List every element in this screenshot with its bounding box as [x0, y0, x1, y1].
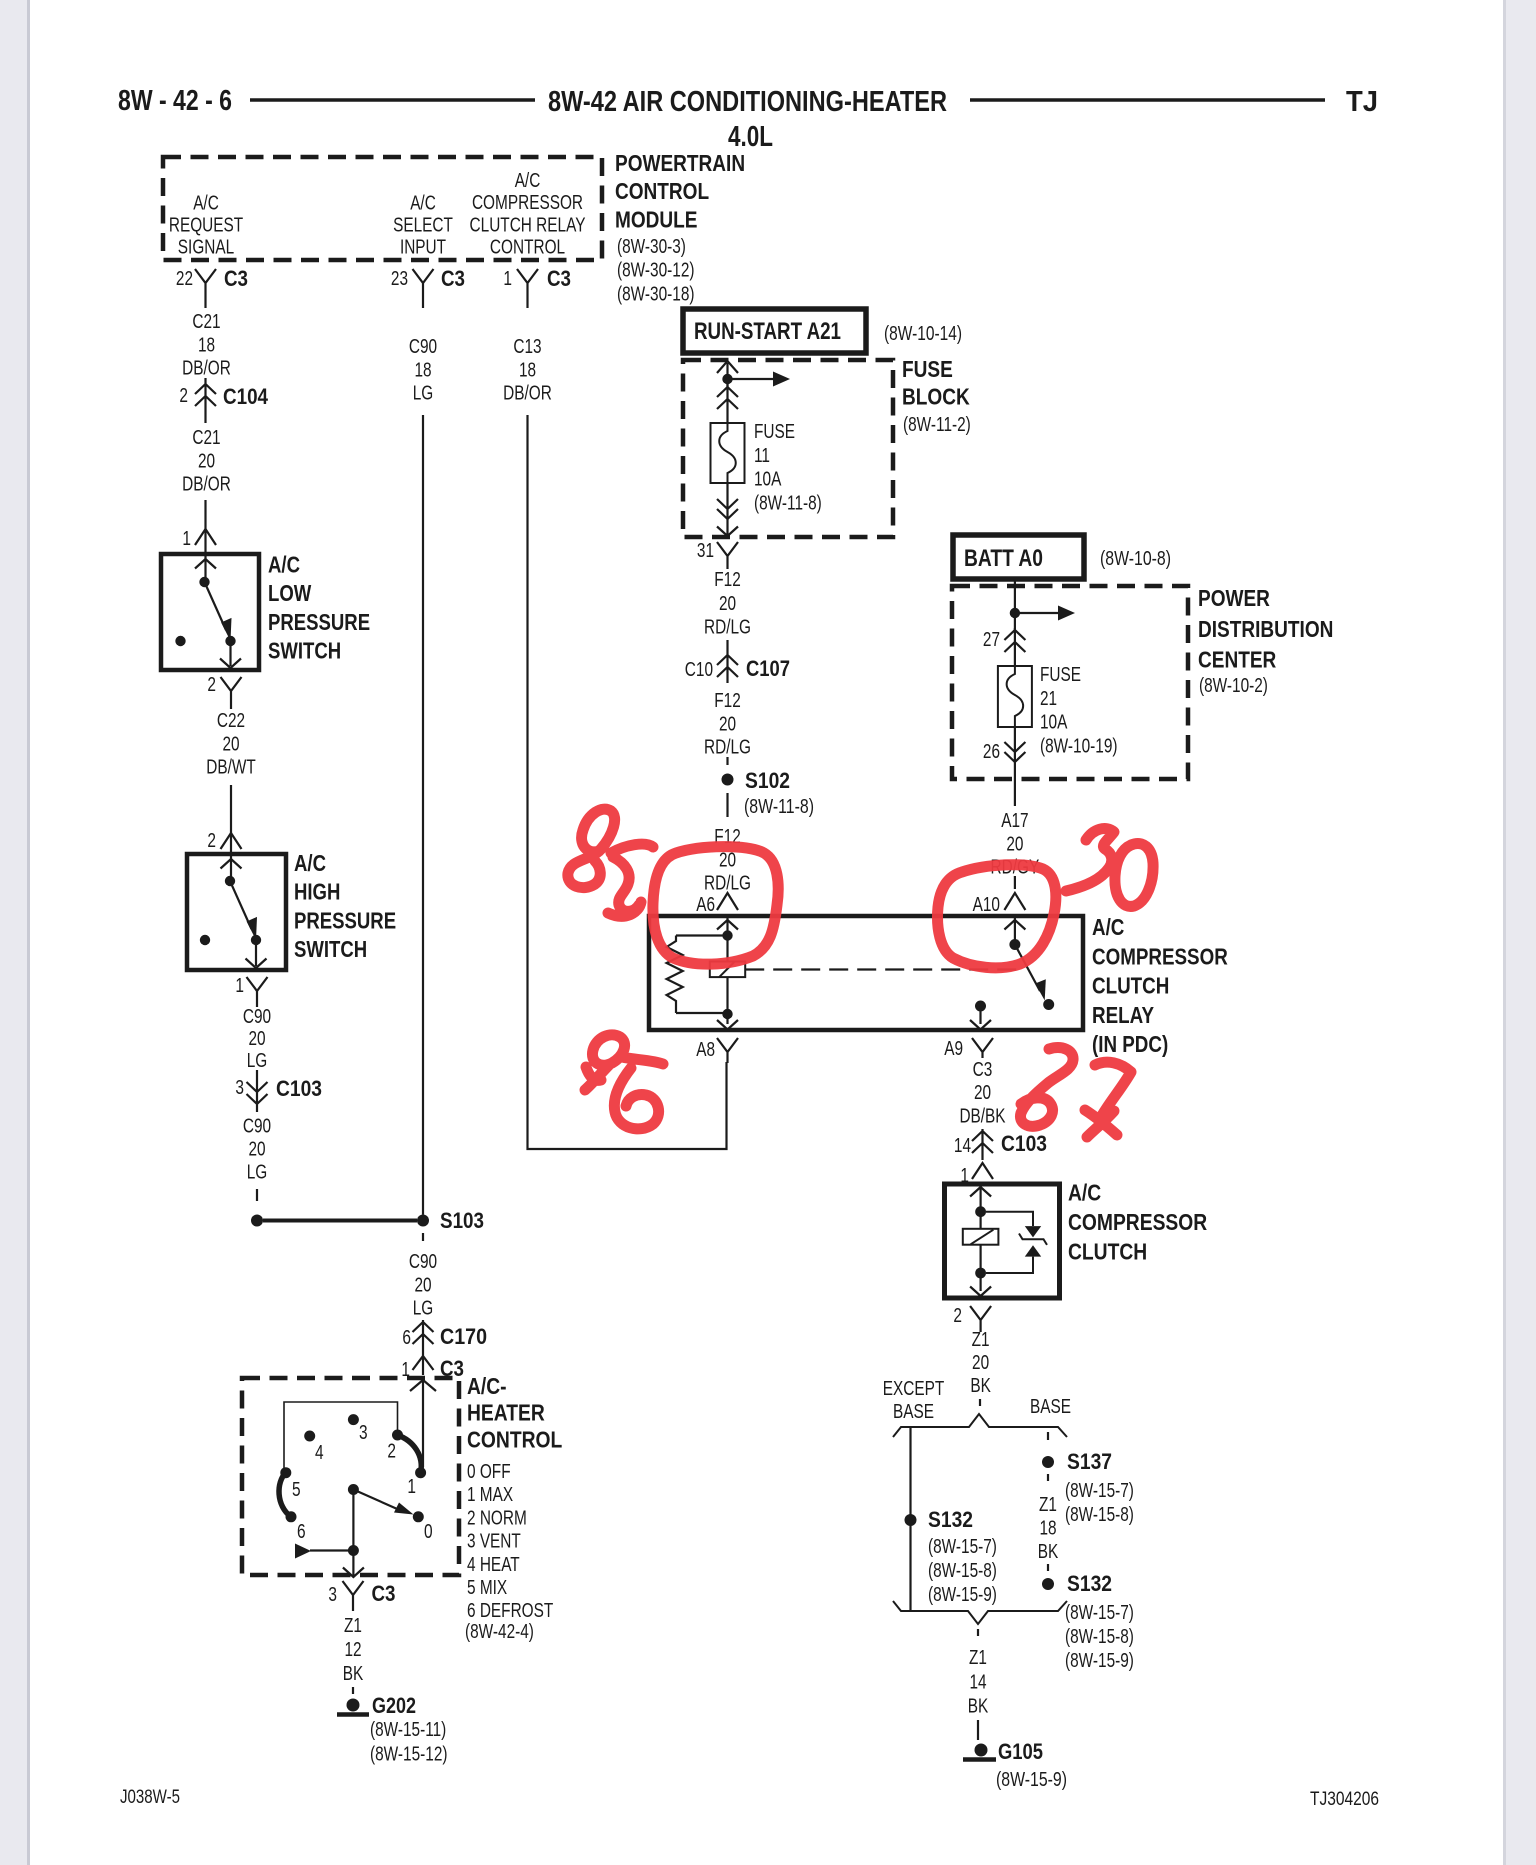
svg-text:FUSE: FUSE — [1040, 663, 1081, 686]
pin number 6 (C170) — [402, 1326, 411, 1349]
connector name C103 (14) — [1001, 1131, 1047, 1156]
svg-text:20: 20 — [719, 592, 736, 615]
wire label C21 20 DB/OR — [182, 426, 231, 496]
ground G105 — [963, 1744, 996, 1760]
svg-text:COMPRESSOR: COMPRESSOR — [472, 191, 583, 214]
label A/C HIGH PRESSURE SWITCH — [294, 850, 396, 962]
svg-text:(8W-15-8): (8W-15-8) — [928, 1559, 997, 1582]
svg-text:A/C: A/C — [515, 169, 541, 192]
label A/C-HEATER CONTROL — [467, 1373, 562, 1452]
ground name G202 — [372, 1693, 416, 1718]
svg-text:COMPRESSOR: COMPRESSOR — [1068, 1209, 1207, 1235]
svg-text:A6: A6 — [696, 893, 715, 916]
connector name C3 (pin 23) — [441, 266, 465, 291]
label POWER DISTRIBUTION CENTER — [1198, 585, 1333, 697]
svg-text:C90: C90 — [409, 1250, 437, 1273]
svg-text:DISTRIBUTION: DISTRIBUTION — [1198, 616, 1333, 642]
pin number 26 — [983, 740, 1000, 763]
pin label A9 — [944, 1037, 963, 1060]
connector pin 23 C3 (Y) — [413, 269, 434, 308]
S132 left sheet references — [928, 1535, 997, 1606]
red circle around relay pin 30/A10 — [938, 865, 1056, 968]
connector name C104 — [223, 384, 269, 409]
svg-text:CLUTCH: CLUTCH — [1068, 1238, 1147, 1264]
svg-text:20: 20 — [222, 732, 239, 755]
svg-text:11: 11 — [754, 444, 770, 467]
left branch wire (except base) — [909, 1427, 911, 1611]
svg-text:CONTROL: CONTROL — [467, 1426, 562, 1452]
wire label C3 20 DB/BK — [959, 1058, 1005, 1127]
svg-text:DB/WT: DB/WT — [206, 756, 256, 779]
rotary wiper feed wire and dot — [348, 1490, 359, 1557]
svg-text:A/C: A/C — [1068, 1180, 1101, 1206]
rotary label 3 — [359, 1421, 368, 1444]
splice S103 dot — [417, 1215, 429, 1227]
svg-text:1: 1 — [235, 974, 244, 997]
wire F12 segment — [726, 640, 728, 653]
in-line connector C103 (14) — [972, 1129, 993, 1160]
clutch coil and suppression diode internals — [963, 1186, 1047, 1296]
pin number 31 — [697, 539, 714, 562]
svg-text:DB/OR: DB/OR — [503, 382, 552, 405]
relay switch branch (A10 to A9) — [970, 918, 1054, 1030]
svg-text:6: 6 — [297, 1520, 306, 1543]
power distribution center box — [952, 586, 1188, 779]
svg-text:C22: C22 — [217, 709, 245, 732]
label BATT A0 — [964, 545, 1043, 572]
pin number 2 (below LP switch) — [207, 673, 216, 696]
rotary label 6 — [297, 1520, 306, 1543]
connector pin 22 C3 (Y) — [195, 269, 216, 308]
rotary contact 6 — [286, 1511, 297, 1522]
svg-text:RD/LG: RD/LG — [704, 616, 751, 639]
svg-text:G105: G105 — [998, 1739, 1043, 1764]
PCM name POWERTRAIN CONTROL MODULE — [615, 150, 745, 233]
G105 sheet reference — [996, 1768, 1067, 1791]
svg-text:(8W-15-11): (8W-15-11) — [370, 1718, 446, 1741]
rotary contact 4 — [304, 1431, 315, 1442]
svg-text:C170: C170 — [440, 1324, 487, 1349]
svg-text:F12: F12 — [714, 568, 741, 591]
svg-text:(8W-15-7): (8W-15-7) — [1065, 1479, 1134, 1502]
pin label A8 — [696, 1038, 715, 1061]
svg-text:A/C: A/C — [1092, 914, 1124, 940]
connector pin A9 (Y) — [972, 1038, 993, 1058]
rotary label 2 — [387, 1440, 396, 1463]
svg-text:20: 20 — [414, 1273, 431, 1296]
svg-text:27: 27 — [983, 628, 1000, 651]
svg-text:A/C: A/C — [193, 192, 219, 215]
connector name C103 — [276, 1076, 322, 1101]
splice S137 — [1042, 1456, 1054, 1468]
svg-text:SIGNAL: SIGNAL — [178, 236, 234, 259]
svg-text:18: 18 — [1039, 1517, 1056, 1540]
wire label Z1 14 BK — [968, 1646, 989, 1718]
splice name S132 (left) — [928, 1507, 973, 1532]
pin A10 chevron — [1004, 876, 1025, 910]
svg-text:TJ304206: TJ304206 — [1310, 1788, 1379, 1810]
svg-text:18: 18 — [519, 358, 536, 381]
svg-text:10A: 10A — [754, 468, 782, 491]
header page number 8W - 42 - 6 — [118, 85, 232, 117]
svg-text:C21: C21 — [192, 310, 220, 333]
reference (8W-11-8) at S102 — [744, 795, 814, 818]
svg-text:S137: S137 — [1067, 1449, 1112, 1474]
svg-text:POWER: POWER — [1198, 585, 1270, 611]
svg-text:Z1: Z1 — [344, 1614, 362, 1637]
svg-text:3: 3 — [359, 1421, 368, 1444]
svg-text:LG: LG — [413, 1297, 434, 1320]
ground name G105 — [998, 1739, 1043, 1764]
handwritten annotation 86 — [585, 1035, 663, 1129]
svg-text:RD/LG: RD/LG — [704, 736, 751, 759]
svg-text:RUN-START A21: RUN-START A21 — [694, 318, 841, 345]
svg-text:C90: C90 — [243, 1115, 271, 1138]
rotary contact 0 — [413, 1511, 424, 1522]
svg-text:C3: C3 — [224, 266, 248, 291]
svg-text:(8W-15-12): (8W-15-12) — [370, 1743, 448, 1766]
svg-text:(8W-15-9): (8W-15-9) — [996, 1768, 1067, 1791]
svg-text:A10: A10 — [973, 893, 1000, 916]
splice S103 left dot — [251, 1215, 263, 1227]
pin number 1 (clutch) — [960, 1164, 969, 1187]
svg-text:(8W-10-14): (8W-10-14) — [884, 322, 962, 345]
A/C high pressure switch box — [187, 854, 286, 970]
svg-text:C104: C104 — [223, 384, 269, 409]
svg-text:DB/OR: DB/OR — [182, 473, 231, 496]
engine label 4.0L — [728, 121, 773, 153]
svg-text:FUSE: FUSE — [754, 420, 795, 443]
heater control exit wire with chevron — [343, 1551, 364, 1578]
fuse block bottom chevron (pin 31) — [717, 519, 738, 536]
footer code TJ304206 — [1310, 1788, 1379, 1810]
connector name C3 (heater control) — [440, 1356, 464, 1381]
wire label F12 20 RD/LG (3) — [704, 825, 751, 895]
svg-text:G202: G202 — [372, 1693, 416, 1718]
svg-text:LOW: LOW — [268, 580, 312, 606]
PDC feed continuation arrow — [1015, 606, 1075, 621]
wire label C22 20 DB/WT — [206, 709, 256, 779]
label A/C COMPRESSOR CLUTCH — [1068, 1180, 1207, 1265]
wire label C90 20 LG (to heater control) — [409, 1250, 437, 1320]
splice name S132 (right) — [1067, 1571, 1112, 1596]
PCM pin label A/C SELECT INPUT — [393, 192, 453, 259]
svg-text:23: 23 — [391, 267, 408, 290]
svg-text:S132: S132 — [1067, 1571, 1112, 1596]
connector pin 2 below LP switch (Y) — [221, 677, 242, 709]
rotary switch contact ring wire — [284, 1402, 398, 1468]
fuse block box — [683, 360, 893, 537]
double chevron below feed dot — [717, 384, 738, 423]
split bracket — [893, 1414, 1067, 1437]
svg-text:31: 31 — [697, 539, 714, 562]
svg-text:FUSE: FUSE — [902, 356, 953, 382]
svg-text:20: 20 — [248, 1138, 265, 1161]
svg-text:EXCEPT: EXCEPT — [883, 1377, 945, 1400]
connector pin A8 (Y) — [717, 1038, 738, 1063]
wire from BATT A0 into PDC — [1014, 579, 1016, 630]
rotary label 0 — [424, 1520, 433, 1543]
svg-text:3: 3 — [235, 1076, 244, 1099]
svg-text:BATT A0: BATT A0 — [964, 545, 1043, 572]
svg-text:(8W-15-8): (8W-15-8) — [1065, 1625, 1134, 1648]
fuse 11 element — [711, 423, 745, 483]
wire stub below S103 — [422, 1233, 424, 1246]
right branch wire stub 2 — [1047, 1474, 1049, 1484]
svg-text:BASE: BASE — [893, 1400, 934, 1423]
connector pin 1 C3 (Y) — [517, 269, 538, 308]
svg-text:(8W-10-19): (8W-10-19) — [1040, 734, 1118, 757]
rotary label 1 — [407, 1475, 416, 1498]
wire C22 to high pressure switch — [230, 785, 232, 854]
pin label C10 — [685, 658, 713, 681]
wire stub below merge — [977, 1629, 979, 1640]
connector name C3 (pin 1) — [547, 266, 571, 291]
svg-text:1: 1 — [503, 267, 512, 290]
svg-text:S102: S102 — [745, 768, 790, 793]
handwritten annotation 30 — [1066, 829, 1153, 907]
svg-text:6 DEFROST: 6 DEFROST — [467, 1599, 554, 1622]
wire label C90 20 LG (lower) — [243, 1115, 271, 1184]
svg-text:4 HEAT: 4 HEAT — [467, 1553, 520, 1576]
connector pin 3 C3 below heater control (Y) — [343, 1581, 364, 1611]
splice S132 right — [1042, 1578, 1054, 1590]
rotary contact 5 — [280, 1467, 291, 1478]
rotary contact 3 — [348, 1414, 359, 1425]
svg-text:20: 20 — [1006, 832, 1023, 855]
fuse block entry chevron — [717, 361, 738, 387]
reference (8W-10-8) — [1100, 547, 1171, 570]
svg-text:CENTER: CENTER — [1198, 647, 1276, 673]
PCM sheet references — [617, 235, 695, 305]
connector name C107 — [746, 656, 790, 681]
pin label A10 — [973, 893, 1000, 916]
rotary label 4 — [315, 1441, 324, 1464]
A/C compressor clutch box — [945, 1184, 1060, 1298]
header title 8W-42 AIR CONDITIONING-HEATER — [548, 86, 947, 118]
PCM pin label A/C REQUEST SIGNAL — [169, 192, 244, 259]
pin number 23 — [391, 267, 408, 290]
svg-text:HIGH: HIGH — [294, 879, 340, 905]
svg-text:20: 20 — [719, 712, 736, 735]
relay coil branch (A6 to A8) — [667, 918, 746, 1030]
wire stub above S102 — [726, 757, 728, 768]
pin number 22 — [176, 267, 193, 290]
svg-text:BK: BK — [343, 1662, 364, 1685]
pin number 1 (LP switch) — [182, 527, 191, 550]
pin number 2 (C104) — [179, 384, 188, 407]
svg-text:C90: C90 — [243, 1005, 271, 1028]
label FUSE BLOCK — [902, 356, 971, 436]
svg-text:2 NORM: 2 NORM — [467, 1506, 527, 1529]
header rule right — [970, 98, 1325, 102]
svg-text:S132: S132 — [928, 1507, 973, 1532]
pin number 3 (C3 out) — [328, 1583, 337, 1606]
svg-text:DB/OR: DB/OR — [182, 357, 231, 380]
red circle around relay pin 85/A6 — [653, 847, 778, 965]
svg-text:1: 1 — [182, 527, 191, 550]
wire label C13 18 DB/OR — [503, 335, 552, 405]
connector pin 31 (Y) — [717, 542, 738, 569]
svg-text:Z1: Z1 — [969, 1646, 987, 1669]
svg-text:CLUTCH RELAY: CLUTCH RELAY — [470, 213, 586, 236]
pin 1 chevron into clutch — [972, 1163, 993, 1179]
low pressure switch internals — [175, 556, 241, 668]
svg-text:(IN PDC): (IN PDC) — [1092, 1031, 1168, 1057]
svg-text:8W-42 AIR CONDITIONING-HEATER: 8W-42 AIR CONDITIONING-HEATER — [548, 86, 947, 118]
svg-text:POWERTRAIN: POWERTRAIN — [615, 150, 745, 176]
svg-text:1 MAX: 1 MAX — [467, 1483, 513, 1506]
wire below S102 — [726, 793, 728, 817]
rotary contact 1 — [415, 1467, 426, 1478]
svg-text:2: 2 — [387, 1440, 396, 1463]
svg-text:C107: C107 — [746, 656, 790, 681]
svg-text:C10: C10 — [685, 658, 713, 681]
svg-text:20: 20 — [198, 449, 215, 472]
in-line connector C3 (1) at heater control — [413, 1352, 434, 1375]
feed continuation arrow — [728, 372, 791, 387]
svg-text:SWITCH: SWITCH — [268, 638, 341, 664]
label A/C COMPRESSOR CLUTCH RELAY (IN PDC) — [1092, 914, 1228, 1057]
A/C low pressure switch box — [161, 554, 259, 670]
pin number 1 (below HP switch) — [235, 974, 244, 997]
RUN-START A21 box — [683, 309, 866, 353]
wire label C90 18 LG — [409, 335, 437, 405]
svg-text:A/C: A/C — [268, 552, 300, 578]
svg-text:(8W-15-9): (8W-15-9) — [928, 1583, 997, 1606]
variant label BASE — [1030, 1395, 1071, 1418]
svg-text:RELAY: RELAY — [1092, 1002, 1154, 1028]
svg-text:(8W-15-9): (8W-15-9) — [1065, 1649, 1134, 1672]
wire label F12 20 RD/LG (1) — [704, 568, 751, 639]
in-line connector C104 (2) — [195, 378, 216, 423]
page left margin strip — [0, 0, 30, 1865]
svg-text:0 OFF: 0 OFF — [467, 1460, 511, 1483]
svg-text:18: 18 — [198, 333, 215, 356]
svg-text:(8W-15-7): (8W-15-7) — [928, 1535, 997, 1558]
svg-text:F12: F12 — [714, 689, 741, 712]
svg-text:CLUTCH: CLUTCH — [1092, 973, 1169, 999]
connector name C3 (pin 22) — [224, 266, 248, 291]
wire C90 18 LG down to S103 — [422, 415, 424, 1215]
svg-text:5: 5 — [292, 1478, 301, 1501]
splice name S137 — [1067, 1449, 1112, 1474]
right branch wire stub 1 — [1047, 1432, 1049, 1443]
connector name C3 (below heater control) — [372, 1581, 396, 1606]
svg-text:C3: C3 — [973, 1058, 993, 1081]
splice S102 — [722, 774, 734, 786]
pin number 14 — [954, 1134, 971, 1157]
svg-text:C103: C103 — [1001, 1131, 1047, 1156]
svg-text:HEATER: HEATER — [467, 1400, 545, 1426]
G202 sheet references — [370, 1718, 448, 1766]
page right margin strip — [1503, 0, 1536, 1865]
svg-text:12: 12 — [344, 1638, 361, 1661]
svg-text:20: 20 — [974, 1081, 991, 1104]
S132 right sheet references — [1065, 1601, 1134, 1672]
svg-text:(8W-10-8): (8W-10-8) — [1100, 547, 1171, 570]
pin number 27 — [983, 628, 1000, 651]
svg-text:(8W-30-3): (8W-30-3) — [617, 235, 686, 258]
wire label F12 20 RD/LG (2) — [704, 689, 751, 759]
wire C21 to low pressure switch — [204, 500, 206, 554]
wire label Z1 18 BK — [1038, 1493, 1059, 1563]
svg-text:Z1: Z1 — [972, 1328, 990, 1351]
svg-text:CONTROL: CONTROL — [490, 236, 565, 259]
svg-text:(8W-30-12): (8W-30-12) — [617, 259, 695, 282]
svg-text:21: 21 — [1040, 687, 1057, 710]
svg-text:A9: A9 — [944, 1037, 963, 1060]
pin number 2 (HP switch) — [207, 829, 216, 852]
heater control position legend — [465, 1460, 554, 1643]
svg-text:(8W-11-2): (8W-11-2) — [903, 413, 971, 436]
high pressure switch internals — [200, 856, 267, 968]
svg-text:LG: LG — [247, 1049, 268, 1072]
svg-text:C13: C13 — [513, 335, 541, 358]
wire label A17 20 RD/GY — [991, 809, 1040, 879]
svg-text:2: 2 — [207, 673, 216, 696]
wire stub above G202 — [352, 1687, 354, 1697]
connector name C170 — [440, 1324, 487, 1349]
svg-text:BK: BK — [968, 1695, 989, 1718]
svg-text:3: 3 — [328, 1583, 337, 1606]
svg-text:(8W-30-18): (8W-30-18) — [617, 282, 695, 305]
fuse block feed dot — [722, 374, 732, 384]
variant label EXCEPT BASE — [883, 1377, 945, 1423]
in-line connector C170 (6) — [413, 1320, 434, 1352]
pin label A6 — [696, 893, 715, 916]
relay actuator dashed link — [745, 968, 1018, 970]
svg-text:A/C: A/C — [294, 850, 326, 876]
svg-text:COMPRESSOR: COMPRESSOR — [1092, 943, 1228, 969]
PCM pin label A/C COMPRESSOR CLUTCH RELAY CONTROL — [470, 169, 586, 259]
pin 2 chevron into HP switch — [221, 833, 242, 849]
svg-text:LG: LG — [247, 1161, 268, 1184]
pin number 2 (below clutch) — [953, 1304, 962, 1327]
svg-text:2: 2 — [953, 1304, 962, 1327]
svg-text:0: 0 — [424, 1520, 433, 1543]
fuse 21 element — [998, 666, 1032, 727]
svg-text:BASE: BASE — [1030, 1395, 1071, 1418]
svg-text:C3: C3 — [547, 266, 571, 291]
svg-text:22: 22 — [176, 267, 193, 290]
in-line connector C107 (C10) — [717, 653, 738, 683]
svg-text:SWITCH: SWITCH — [294, 936, 367, 962]
rotary wiper hub — [348, 1484, 359, 1495]
svg-text:26: 26 — [983, 740, 1000, 763]
A/C compressor clutch relay box — [649, 916, 1083, 1030]
rotary contact 2 — [392, 1430, 403, 1441]
pin number 1 — [503, 267, 512, 290]
svg-text:TJ: TJ — [1346, 86, 1378, 118]
svg-text:BLOCK: BLOCK — [902, 384, 970, 410]
footer code J038W-5 — [120, 1786, 180, 1808]
rotary arc 5-6 — [279, 1473, 291, 1517]
pin 27 double chevron — [1004, 628, 1025, 666]
fuse 11 labels — [754, 420, 822, 514]
label A/C LOW PRESSURE SWITCH — [268, 552, 370, 664]
rotary arc 2-1 — [398, 1435, 422, 1473]
fuse block exit double chevron — [717, 483, 738, 519]
wiper pointer triangle and line — [295, 1544, 353, 1559]
svg-text:SELECT: SELECT — [393, 214, 453, 237]
ground G202 — [337, 1699, 369, 1715]
svg-text:14: 14 — [969, 1670, 986, 1693]
wire label C90 20 LG (upper) — [243, 1005, 271, 1072]
svg-text:BK: BK — [1038, 1540, 1059, 1563]
svg-text:Z1: Z1 — [1039, 1493, 1057, 1516]
splice name S103 — [440, 1208, 484, 1233]
